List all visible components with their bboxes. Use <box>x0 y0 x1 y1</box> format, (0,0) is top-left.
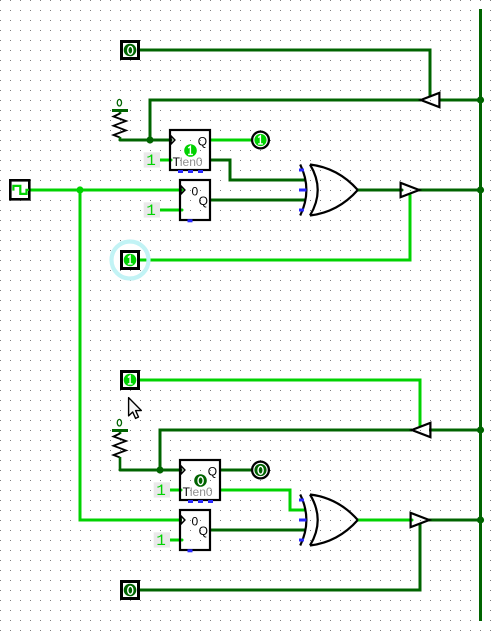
xor gate X1 <box>299 165 358 216</box>
wire pin1-bot to buffer B3 control horizontal <box>139 380 421 426</box>
wire xor X2 output to buffer B4 input <box>358 519 412 522</box>
wire buffer B1 output feedback horizontal <box>150 100 421 140</box>
probe PR1 value 1 <box>252 132 269 149</box>
wire clock node to U2 clock input <box>80 189 182 192</box>
wire clock CLK1 output <box>30 189 80 192</box>
constant C2 value 1 <box>144 202 160 220</box>
svg-text:len0: len0 <box>190 485 213 499</box>
svg-text:Q: Q <box>198 135 207 149</box>
wire rail to buffer B3 input <box>429 429 481 432</box>
wire constant C1 to U1 T input <box>160 159 171 162</box>
buffer B1 controlled west <box>421 93 440 107</box>
svg-text:len0: len0 <box>180 155 203 169</box>
junction node at (150,140) <box>146 136 153 143</box>
wire pin0-top to buffer control horizontal <box>139 50 431 96</box>
mouse cursor <box>129 398 142 419</box>
constant C1 value 1 <box>144 152 160 170</box>
wire buffer B2 control vertical <box>139 194 411 260</box>
wire clock long vertical to bottom section <box>80 190 182 520</box>
xor gate X2 <box>299 495 358 546</box>
wire U4 Q output to xor X2 input 4 <box>210 529 305 532</box>
wire constant C2 to U2 lower input <box>160 209 182 212</box>
pin P4 output value 0 bottom <box>122 582 139 599</box>
buffer B3 controlled west <box>412 423 431 437</box>
resistor R1 pull-down <box>112 99 128 141</box>
constant C4 value 1 <box>154 532 170 550</box>
flip-flop U4 <box>180 510 210 552</box>
flip-flop U2 <box>180 180 210 222</box>
svg-text:Q: Q <box>199 524 208 538</box>
wire U1 Q output to probe PR1 <box>210 139 252 142</box>
svg-text:1: 1 <box>156 482 166 500</box>
wire U2 Q output to xor X1 input 4 <box>210 199 305 202</box>
junction node clock at (80,190) <box>76 186 83 193</box>
wire U3 notQ output horizontal <box>220 490 305 510</box>
pin P3 output value 1 <box>122 372 139 389</box>
junction node at (160,470) <box>156 466 163 473</box>
junction node rail at (480,100) <box>477 96 484 103</box>
svg-text:1: 1 <box>146 202 156 220</box>
svg-text:0: 0 <box>192 515 199 529</box>
wire buffer B2 output to rail <box>418 189 481 192</box>
clock CLK1 <box>10 180 29 199</box>
buffer B2 controlled east <box>401 183 420 197</box>
svg-text:1: 1 <box>146 152 156 170</box>
svg-text:1: 1 <box>156 532 166 550</box>
wire buffer B4 control vertical <box>139 524 421 590</box>
wire U1 notQ output horizontal <box>210 160 305 180</box>
pin P2 output value 1 <box>122 252 139 269</box>
halo around pin P2 <box>112 242 149 279</box>
wire U3 Q output to probe PR2 <box>220 469 252 472</box>
wire buffer B4 output to rail <box>428 519 481 522</box>
resistor R2 pull-down <box>112 419 128 470</box>
flip-flop U1 T len0 <box>170 130 210 173</box>
junction node rail at (480,190) <box>477 186 484 193</box>
wire buffer B3 output feedback horizontal <box>160 430 412 470</box>
wire xor X1 output to buffer B2 input <box>358 189 402 192</box>
buffer B4 controlled east <box>411 513 430 527</box>
node right power rail <box>479 9 482 621</box>
svg-text:Q: Q <box>199 194 208 208</box>
constant C3 value 1 <box>154 482 170 500</box>
svg-text:Q: Q <box>208 465 217 479</box>
junction node rail at (480,430) <box>477 426 484 433</box>
wire constant C3 to U3 T input <box>170 489 181 492</box>
junction node rail at (480,520) <box>477 516 484 523</box>
probe PR2 value 0 <box>252 462 269 479</box>
wire resistor R2 to flipflop U3 clock <box>120 469 181 472</box>
flip-flop U3 T len0 <box>180 460 220 503</box>
wire rail to buffer B1 input <box>439 99 481 102</box>
wire resistor R1 to flipflop U1 clock <box>120 139 171 142</box>
wire constant C4 to U4 lower input <box>170 539 182 542</box>
svg-text:0: 0 <box>192 185 199 199</box>
pin P1 output value 0 top <box>122 42 139 59</box>
